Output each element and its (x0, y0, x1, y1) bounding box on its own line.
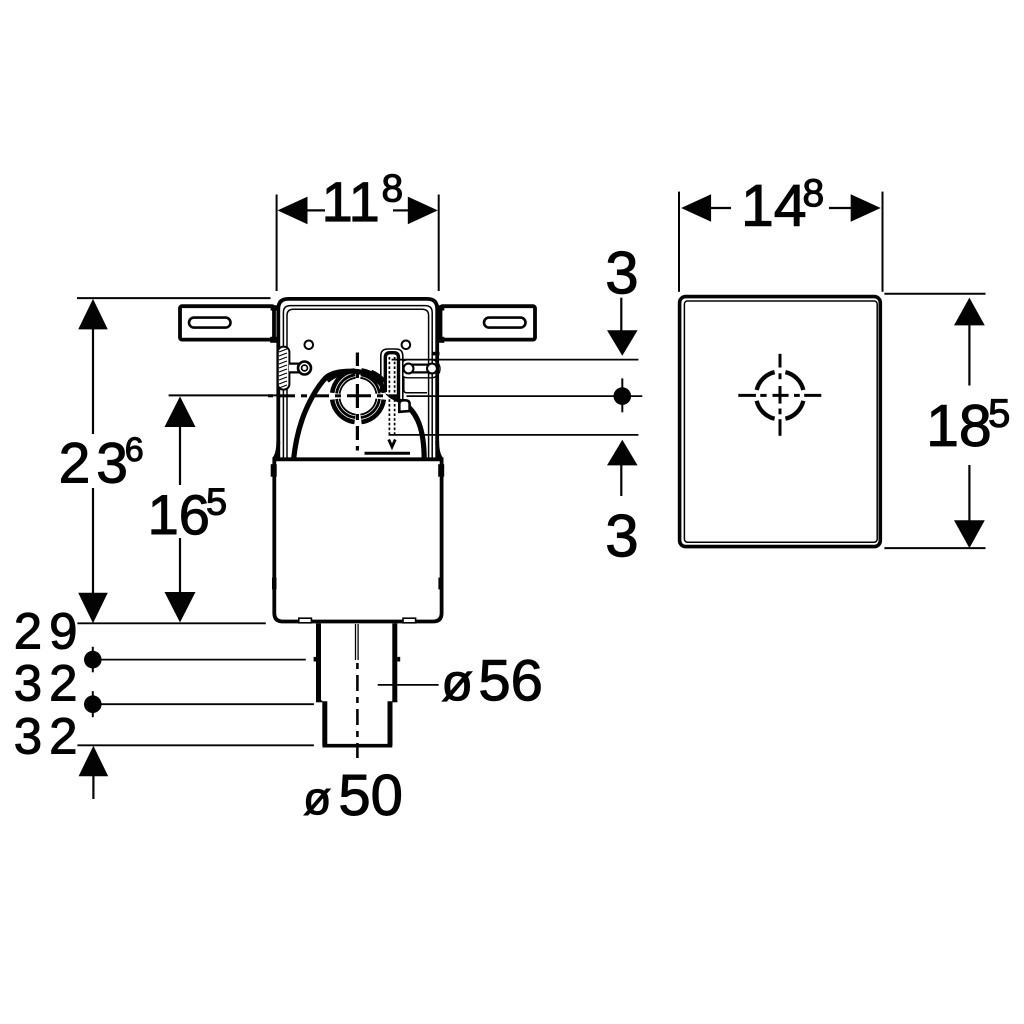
svg-text:3: 3 (605, 239, 638, 306)
dimension 16.5 (148, 396, 228, 622)
supply connection circle rings (332, 370, 384, 422)
chain dimension level 32a (84, 647, 306, 673)
dimension 18.5 (926, 298, 1010, 548)
flush bend spindle housing walls (385, 353, 398, 399)
cistern inner liner line 1 (283, 306, 432, 459)
svg-text:6: 6 (125, 431, 144, 469)
plate crosshair horizontal (738, 394, 821, 397)
cistern inner liner line 2 (287, 309, 429, 459)
chain dimension level 32b (84, 691, 314, 717)
svg-text:11: 11 (322, 170, 380, 233)
box bottom notches (299, 618, 312, 623)
left fixing screw arm and eyelet (289, 360, 312, 376)
lower protection box (274, 459, 441, 621)
svg-text:32: 32 (14, 708, 85, 765)
left mounting rail wing (180, 306, 274, 339)
flush bend spindle housing outer contour (381, 349, 403, 400)
chain dimension level 29 (77, 622, 265, 624)
box side tabs (271, 464, 277, 477)
dimension 3 top (605, 239, 638, 356)
svg-text:50: 50 (338, 763, 403, 828)
plate crosshair circle (757, 372, 804, 419)
vertical centerline through circle (356, 353, 359, 451)
chain dimension bottom arrow (79, 746, 109, 799)
wire: 23.6 top reference line (77, 297, 271, 299)
dimension 11.8 (278, 168, 438, 234)
pipe seam lines (355, 624, 357, 660)
svg-text:29: 29 (14, 603, 85, 660)
plate crosshair vertical (779, 354, 782, 436)
dimension 11.8 extension lines (276, 195, 278, 292)
dome-ring blend right (371, 373, 384, 382)
threaded rod tip V (389, 440, 396, 447)
svg-text:8: 8 (381, 168, 403, 211)
svg-text:18: 18 (926, 393, 992, 459)
water level mark (365, 452, 411, 455)
dimension 18.5 extension lines (884, 293, 985, 295)
dimension 23.6 (59, 299, 144, 623)
center leader line with dot (407, 378, 643, 412)
right mounting rail wing (441, 306, 536, 339)
svg-text:32: 32 (14, 655, 85, 712)
actuator plate outer (680, 297, 881, 547)
left fixing screw strip (278, 347, 290, 390)
svg-text:8: 8 (803, 172, 825, 215)
svg-text:5: 5 (988, 392, 1010, 436)
leader line top (3) (392, 359, 639, 361)
right fixing link (two eyelets) (399, 360, 440, 393)
hole left (305, 341, 314, 350)
svg-text:5: 5 (206, 482, 227, 524)
cistern upper housing outer wall (278, 299, 437, 459)
hole right (402, 341, 411, 350)
horizontal centerline through circle (268, 394, 400, 397)
svg-text:14: 14 (741, 173, 807, 239)
pipe centerline (356, 663, 359, 758)
svg-text:56: 56 (478, 648, 543, 713)
outlet pipe d56 (314, 624, 401, 702)
dome-ring blend left (327, 372, 344, 380)
right wall bottom flare (437, 441, 441, 459)
chain dimension bottom line (77, 744, 314, 746)
dimension 14.8 extension lines (678, 192, 680, 292)
threaded rod (dashed) (389, 357, 394, 436)
dimension 3 bottom (605, 440, 638, 569)
left wall bottom flare (274, 441, 278, 459)
svg-text:23: 23 (59, 432, 134, 496)
leader line bottom (3) (389, 434, 639, 436)
rail joint blocks (271, 305, 278, 310)
claw piece (399, 400, 409, 412)
svg-text:ø: ø (441, 654, 473, 712)
dimension 16.5 reference line (169, 394, 281, 396)
outlet pipe d50 (323, 701, 393, 745)
actuator plate inner line (684, 301, 877, 542)
svg-text:16: 16 (148, 483, 210, 546)
diameter 56 leader (378, 684, 439, 686)
right wall step tick (433, 352, 440, 356)
dimension 14.8 (681, 172, 881, 239)
svg-text:ø: ø (303, 772, 331, 824)
svg-text:3: 3 (605, 502, 638, 569)
dome (flush bend housing) (294, 371, 425, 460)
